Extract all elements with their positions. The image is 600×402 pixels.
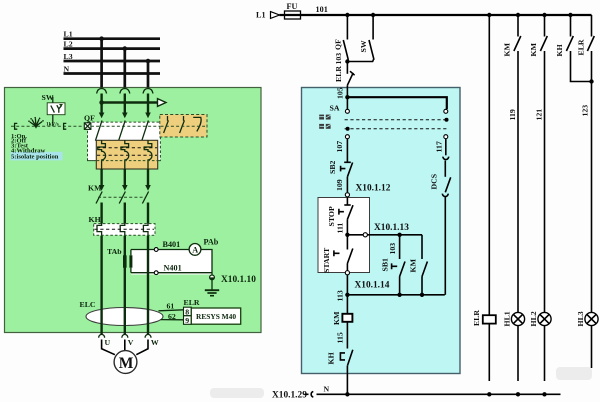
PE line with arrow [99, 99, 166, 107]
svg-text:HL3: HL3 [576, 311, 585, 326]
svg-text:ELR: ELR [472, 310, 481, 326]
KM linkage dashed [98, 196, 145, 198]
ELR interlock contact [334, 62, 355, 86]
breaker QF dashed enclosure [88, 122, 161, 161]
QF linkage dashed wire [91, 125, 205, 127]
wire 103 branch [388, 233, 402, 259]
wire 109 [335, 177, 347, 193]
svg-text:M: M [119, 355, 134, 372]
KH heater 2 [120, 223, 125, 236]
wire 111 [336, 219, 348, 235]
node ELR lamp branch [487, 13, 491, 17]
svg-text:5:isolate position: 5:isolate position [11, 154, 59, 161]
svg-text:KH: KH [327, 352, 336, 364]
svg-text:SB1: SB1 [381, 258, 390, 272]
svg-text:121: 121 [535, 109, 544, 121]
wire HL3 down [591, 326, 593, 368]
terminal X10.1.14 [345, 271, 389, 291]
svg-text:107: 107 [335, 141, 344, 153]
position legend text [11, 133, 63, 161]
svg-text:KM: KM [88, 184, 102, 193]
wire drop L1 [99, 36, 104, 87]
wire pole1 KH-bottom [100, 236, 102, 335]
wire pole3 KH-bottom [147, 236, 149, 335]
node KM run lamp [516, 13, 520, 17]
ammeter PAb [189, 238, 219, 256]
svg-text:N: N [64, 64, 70, 73]
wire 105 [336, 85, 348, 99]
svg-text:N401: N401 [164, 264, 182, 273]
node wire 113 [345, 293, 349, 297]
svg-text:SW: SW [359, 40, 368, 52]
svg-text:X10.1.10: X10.1.10 [221, 275, 256, 285]
svg-text:KM: KM [409, 258, 418, 272]
node merge 123 [589, 79, 593, 83]
ELR fault contact [577, 15, 595, 56]
KH heater 3 [143, 223, 148, 236]
outlet hook U [99, 334, 111, 347]
pushbutton STOP [327, 205, 353, 227]
watermark smudge [210, 367, 592, 398]
svg-text:QF: QF [334, 39, 343, 50]
connector X10.1.10 [210, 275, 257, 285]
source L1 arrow [256, 11, 280, 20]
control panel (cyan) [302, 88, 461, 374]
svg-text:V: V [128, 338, 134, 347]
wire X10.1.14 bus [347, 294, 444, 296]
svg-text:W: W [151, 338, 159, 347]
svg-text:U: U [105, 338, 111, 347]
svg-text:105: 105 [336, 87, 345, 99]
fuse FU [285, 2, 301, 19]
motor lead V [124, 340, 126, 351]
CT TAb primary bar [123, 255, 127, 267]
QF linkage box [84, 123, 91, 130]
KM pole 3 [142, 185, 150, 224]
svg-text:ELR: ELR [184, 298, 200, 307]
svg-text:SB2: SB2 [328, 160, 337, 174]
wire SA right feed [347, 97, 446, 109]
svg-text:FU: FU [287, 2, 298, 11]
bus L3 [64, 52, 161, 61]
wire 121 [535, 51, 545, 312]
label manual (CJK) [319, 115, 330, 120]
wire pole2 KH-bottom [124, 236, 126, 335]
svg-text:RESYS M40: RESYS M40 [196, 312, 236, 321]
CT TAb secondary bar [129, 250, 132, 273]
power panel (green) [5, 88, 262, 333]
svg-text:L2: L2 [64, 39, 73, 48]
pushbutton START [322, 235, 353, 273]
KM pole 1 [96, 185, 104, 224]
svg-text:B401: B401 [163, 240, 181, 249]
svg-text:X10.1.12: X10.1.12 [356, 183, 391, 193]
wire 107 [335, 139, 347, 162]
entry bushing 1 [97, 89, 107, 94]
wire drop L3 [146, 59, 151, 88]
pushbutton SB2 [328, 160, 353, 176]
node SA feed [345, 95, 349, 99]
KH heater 1 [97, 223, 102, 236]
svg-text:L3: L3 [64, 52, 73, 61]
svg-text:X10.1.13: X10.1.13 [374, 223, 409, 233]
svg-text:ELR: ELR [577, 39, 586, 55]
wire SW to QF junction [345, 59, 373, 63]
svg-text:SW: SW [42, 93, 54, 102]
svg-text:103: 103 [388, 243, 397, 255]
svg-text:111: 111 [336, 223, 345, 234]
QF enclosure bottom dashed edge [88, 160, 161, 162]
wire KH to N [346, 366, 348, 395]
bus N [64, 64, 161, 73]
wire ELR coil to N [487, 324, 491, 397]
lamp HL3 [576, 311, 598, 326]
svg-text:9: 9 [185, 316, 189, 325]
svg-text:DCS: DCS [430, 174, 439, 190]
contactor coil KM [332, 311, 352, 325]
svg-text:ELR: ELR [334, 66, 343, 82]
wire KH to merge [571, 51, 592, 82]
QF trip element 1 [98, 140, 106, 169]
svg-text:123: 123 [581, 105, 590, 117]
wire drop L2 [123, 46, 128, 87]
wire 61 [159, 302, 184, 311]
QF aux contact box [160, 115, 207, 138]
outlet hook V [122, 334, 134, 347]
wire 117 [435, 139, 446, 156]
svg-text:109: 109 [335, 179, 344, 191]
outlet hook W [145, 334, 159, 347]
KH linkage dashed [95, 228, 155, 230]
svg-text:61: 61 [167, 302, 175, 311]
selector fan [28, 117, 44, 129]
bus L1 [64, 30, 161, 39]
QF pole 3 [142, 94, 151, 141]
KM pole 2 [119, 185, 127, 224]
svg-text:L1: L1 [64, 30, 73, 39]
wire 101 main line [280, 5, 592, 15]
svg-text:ELC: ELC [80, 300, 96, 309]
SA left pole [345, 97, 349, 139]
svg-text:115: 115 [336, 332, 345, 343]
svg-text:117: 117 [435, 141, 444, 152]
wire into station [346, 197, 348, 205]
ELC toroid ellipse [86, 308, 163, 326]
svg-text:TAb: TAb [107, 247, 122, 256]
QF pole 2 [119, 94, 128, 141]
wire HL1 to N [516, 326, 520, 397]
wire pole1 QF-KM [100, 169, 102, 186]
terminal X10.1.12 [345, 183, 390, 197]
relay RESYS M40 [191, 308, 240, 324]
QF pole 1 [95, 94, 104, 141]
wire to X10.1.13 [347, 223, 422, 237]
svg-text:62: 62 [168, 312, 176, 321]
svg-text:103: 103 [334, 53, 343, 65]
relay coil ELR [472, 310, 496, 326]
node KM stop lamp [542, 13, 546, 17]
DCS connector upper [443, 157, 449, 160]
local control station box [318, 198, 370, 273]
svg-text:KM: KM [332, 311, 341, 325]
QF trip dashed links [97, 148, 157, 155]
ELR terminal block 8/9 [184, 307, 192, 325]
DCS remote contact [430, 161, 451, 193]
wire ammeter to X10.1.10 [201, 250, 212, 275]
metering white box [131, 250, 212, 275]
DCS connector lower [442, 194, 448, 197]
connector X10.1.29 [272, 391, 313, 401]
wire 119 [508, 51, 518, 312]
svg-text:KM: KM [503, 42, 512, 56]
wire DCS to bus [444, 197, 446, 295]
KM lamp contact 2 [529, 15, 547, 57]
QF trip unit box [96, 140, 157, 169]
SA position manual dashed [345, 118, 449, 122]
svg-text:SA: SA [330, 104, 340, 113]
KH fault contact [555, 15, 573, 57]
bus L2 [64, 39, 161, 48]
entry bushing 3 [143, 89, 153, 94]
SW aux contact [359, 15, 374, 62]
svg-text:A: A [192, 245, 198, 254]
QF trip element 2 [121, 140, 129, 169]
position dashed line [11, 123, 84, 129]
node SW branch [371, 13, 375, 17]
svg-text:L1: L1 [256, 11, 266, 20]
wire N401 [131, 264, 212, 275]
switch SW [42, 93, 66, 126]
node wire 111 [345, 233, 349, 237]
entry bushing 2 [120, 89, 130, 94]
svg-text:QF: QF [84, 113, 95, 122]
wire 62 [161, 312, 184, 321]
QF trip element 3 [144, 140, 152, 169]
svg-text:113: 113 [336, 290, 345, 301]
lamp HL2 [529, 311, 551, 326]
svg-text:1kV/s: 1kV/s [46, 121, 59, 127]
wire pole2 QF-KM [124, 169, 126, 186]
svg-text:X10.1.29: X10.1.29 [272, 391, 307, 401]
wire 115 [336, 322, 348, 349]
svg-text:N: N [324, 384, 330, 393]
wire 113 [336, 275, 348, 314]
label auto (CJK) [319, 124, 330, 129]
node QF branch [345, 13, 349, 17]
svg-text:HL1: HL1 [503, 311, 512, 326]
lamp HL1 [503, 311, 525, 326]
wire 123 [581, 51, 592, 312]
svg-text:101: 101 [316, 5, 328, 14]
svg-text:START: START [322, 247, 331, 273]
pushbutton SB1 [381, 258, 406, 297]
wire B401 [131, 240, 189, 251]
svg-text:PAb: PAb [204, 238, 219, 247]
QF aux contact [334, 15, 349, 62]
svg-text:KH: KH [89, 215, 101, 224]
node KH fault branch [568, 13, 572, 17]
earth ground [205, 280, 219, 296]
neutral N line [317, 384, 561, 396]
svg-text:X10.1.14: X10.1.14 [355, 281, 390, 291]
svg-text:119: 119 [508, 109, 517, 120]
KM lamp contact 1 [503, 15, 521, 57]
svg-text:KM: KM [529, 42, 538, 56]
SA right pole [444, 109, 448, 138]
motor M1 [114, 351, 137, 374]
wire pole3 QF-KM [147, 169, 149, 186]
svg-text:KH: KH [555, 44, 564, 56]
wire to ELR coil [488, 15, 490, 315]
motor lead W [136, 340, 148, 355]
KM holding contact [409, 235, 428, 297]
motor lead U [102, 340, 115, 355]
thermal contact KH [327, 350, 353, 366]
wire HL2 to N [542, 326, 546, 397]
SA position auto dashed [345, 127, 447, 131]
svg-text:HL2: HL2 [529, 311, 538, 326]
KH dashed box [94, 224, 155, 236]
